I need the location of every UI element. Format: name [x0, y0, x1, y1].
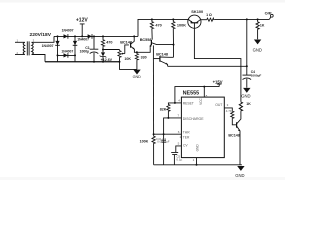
wire DISCHARGE pin 7	[164, 118, 182, 165]
node pot bottom	[119, 61, 121, 63]
potentiometer VR1 10K	[118, 50, 121, 58]
wire VCC pin 8	[203, 87, 205, 98]
svg-text:+15V: +15V	[213, 79, 223, 84]
svg-text:1000µ: 1000µ	[80, 50, 90, 54]
svg-text:1N4007: 1N4007	[62, 28, 74, 32]
ground GND under 330	[133, 70, 140, 75]
svg-text:BC148: BC148	[156, 52, 168, 56]
svg-text:TER: TER	[183, 135, 190, 139]
node rail 100K	[172, 18, 174, 20]
transistor Q4 SK100 pass	[188, 15, 201, 28]
svg-text:CV: CV	[183, 143, 188, 147]
diode D5 1N4007 series isolating	[88, 34, 92, 39]
svg-text:1N4007: 1N4007	[61, 50, 73, 54]
svg-text:BC148: BC148	[228, 134, 239, 138]
svg-text:220V/18V: 220V/18V	[30, 32, 52, 38]
node output 1K branch	[257, 18, 259, 20]
svg-text:330: 330	[141, 56, 147, 60]
diode D3 1N4007 bridge left	[55, 41, 60, 45]
node rail 470	[151, 18, 153, 20]
wire bridge left branch	[57, 36, 59, 61]
node VCC pin 8	[203, 86, 205, 88]
svg-text:82K: 82K	[160, 107, 167, 111]
svg-text:DISCHARGE: DISCHARGE	[183, 117, 204, 121]
transformer T1 primary top lead	[15, 41, 25, 43]
node bridge mid-left	[57, 54, 59, 56]
diode D1 1N4007 bridge top	[64, 34, 68, 39]
node 100K bottom	[173, 44, 175, 46]
node Q1 collector	[133, 35, 135, 37]
svg-text:O/P: O/P	[265, 10, 272, 15]
svg-text:1 Ω: 1 Ω	[206, 13, 212, 17]
svg-text:BC558: BC558	[140, 38, 152, 42]
node bridge top-right	[74, 35, 76, 37]
transformer T1 core	[27, 41, 29, 55]
svg-text:100K: 100K	[177, 24, 186, 28]
svg-text:VCC: VCC	[199, 97, 203, 104]
node Q1 emitter / 330	[136, 51, 138, 53]
node GND pin 1	[196, 164, 198, 166]
resistor R4 470	[150, 21, 153, 29]
ground GND under C4	[243, 88, 250, 93]
resistor R8 1K	[239, 101, 242, 111]
wire regulator output sense	[168, 65, 247, 67]
svg-text:100K: 100K	[140, 140, 149, 144]
svg-text:1N4007: 1N4007	[77, 38, 89, 42]
svg-text:1K: 1K	[246, 102, 251, 106]
transistor Q5 BC148 output	[237, 122, 240, 165]
transistor Q2 BC558	[150, 40, 174, 59]
output terminal O/P	[269, 17, 271, 20]
capacitor C3 timing	[161, 140, 166, 142]
node DISCHARGE / 82K	[167, 117, 169, 119]
wire collector to output	[200, 19, 206, 21]
node +12V tap	[81, 35, 83, 37]
svg-text:GND: GND	[253, 48, 262, 53]
node RESET / 82K	[174, 102, 176, 104]
wire ground step to GND	[120, 62, 138, 70]
wire RESET pin 4 with 82K	[168, 103, 181, 118]
svg-text:0.0047µF: 0.0047µF	[157, 139, 170, 143]
node THR / 100K	[153, 133, 155, 135]
wire to O/P terminal	[214, 18, 269, 20]
svg-text:+12V: +12V	[76, 17, 88, 23]
node C1 top	[93, 35, 95, 37]
svg-text:NE555: NE555	[183, 91, 199, 97]
svg-text:GND: GND	[133, 75, 142, 79]
transformer T1 primary winding	[23, 42, 25, 54]
svg-text:OUT: OUT	[215, 103, 222, 107]
node output C4 branch	[246, 18, 248, 20]
resistor R11 4.7K	[231, 111, 234, 119]
resistor R3 330	[135, 53, 138, 60]
wire bridge top rail	[54, 35, 138, 37]
wire bridge middle branch	[58, 54, 76, 56]
diode D4 1N4007 bridge right	[73, 41, 78, 45]
svg-text:GND: GND	[235, 173, 244, 178]
wire output down to C4	[246, 19, 248, 75]
svg-text:10K: 10K	[124, 57, 131, 61]
resistor R6 1 ohm	[206, 18, 214, 21]
transistor Q1 BC148 error amp	[131, 36, 137, 52]
node +12V tap	[80, 24, 85, 37]
wire GND pin 1	[196, 158, 198, 165]
wire bottom ground rail	[154, 164, 242, 166]
svg-text:BC148: BC148	[120, 40, 132, 44]
wire zener node to pot	[103, 49, 120, 51]
resistor R7 1K load	[256, 21, 259, 29]
capacitor C4 1000uF	[243, 75, 252, 88]
node C1 bottom	[93, 61, 95, 63]
resistor R5 100K	[172, 21, 175, 29]
svg-text:THR: THR	[183, 131, 190, 135]
svg-text:0.1µ: 0.1µ	[176, 157, 182, 161]
svg-text:1N4007: 1N4007	[42, 44, 54, 48]
wire emitter node to BC558	[137, 47, 150, 52]
wire THR pin 6	[154, 133, 182, 135]
wire bottom negative rail	[45, 61, 120, 63]
wire CV pin 5 with C5	[176, 146, 182, 153]
wire bridge right branch	[74, 36, 76, 61]
svg-text:470: 470	[106, 40, 112, 44]
wire BC558 collector to THR	[152, 59, 154, 135]
svg-text:1K: 1K	[260, 24, 265, 28]
wire OUT pin 3	[224, 108, 232, 111]
diode D2 1N4007 bridge middle	[64, 53, 68, 58]
node sense / C4	[246, 65, 248, 67]
wire secondary top to bridge	[32, 36, 54, 42]
wire SK100 base to switch	[194, 28, 241, 101]
transistor Q3 BC148 driver	[153, 56, 173, 66]
svg-text:470: 470	[155, 24, 161, 28]
node zener bottom	[102, 61, 104, 63]
ground GND under 1K	[254, 40, 261, 45]
svg-text:GND: GND	[195, 144, 199, 152]
capacitor C5 0.1u	[171, 152, 178, 164]
resistor R10 100K timing	[152, 136, 155, 144]
wire top rail riser	[138, 19, 188, 36]
zener diode ZD1 12.6V	[100, 52, 107, 61]
ground GND bottom right	[237, 166, 244, 171]
node bridge AC top-left	[57, 35, 59, 37]
transformer T1 primary bottom lead	[15, 54, 25, 56]
wire secondary bottom to bridge	[32, 55, 45, 62]
resistor R1 470	[101, 39, 104, 47]
capacitor C1 1000u	[90, 36, 99, 61]
transformer T1 secondary winding	[32, 42, 34, 54]
svg-text:RESET: RESET	[183, 101, 194, 105]
node zener reference	[102, 49, 104, 51]
IC U1 NE555 box	[181, 97, 224, 158]
power flag +15V	[175, 84, 222, 103]
node bridge mid-right	[74, 54, 76, 56]
svg-text:1000µF: 1000µF	[251, 73, 262, 77]
svg-text:SK100: SK100	[191, 9, 203, 14]
svg-text:4.7K: 4.7K	[226, 109, 232, 113]
node THR / C3	[163, 133, 165, 135]
svg-text:GND: GND	[241, 94, 250, 99]
node 470 top	[102, 35, 104, 37]
resistor R9 82K	[167, 104, 170, 112]
